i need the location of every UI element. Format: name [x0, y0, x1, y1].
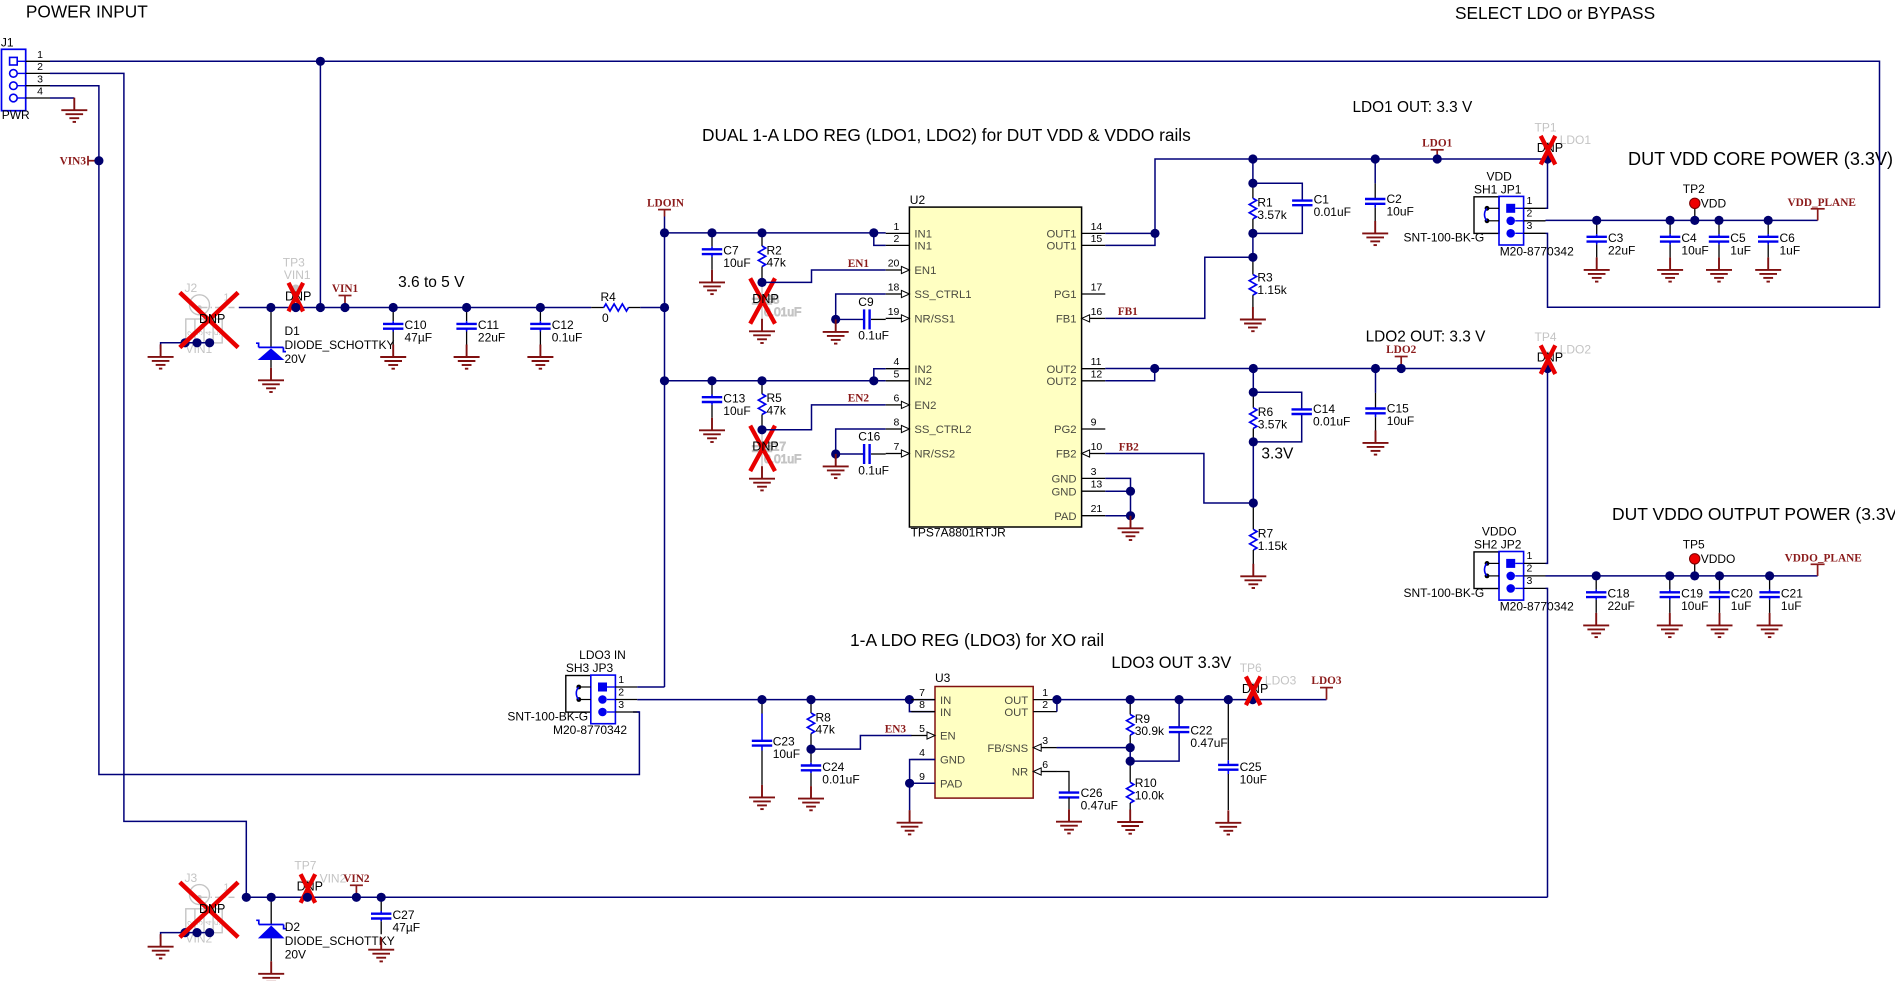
ground under C27	[368, 937, 394, 961]
node VIN3	[60, 156, 99, 168]
svg-text:POWER INPUT: POWER INPUT	[26, 1, 148, 21]
svg-text:3.57k: 3.57k	[1257, 208, 1287, 222]
wire U3 IN pin8 join	[909, 700, 935, 712]
svg-text:VDD: VDD	[1487, 169, 1513, 183]
test point TP6 (DNP)	[1240, 661, 1297, 705]
pin 10 FB2 of U2	[1056, 441, 1105, 461]
wire FB2 from U2 to divider	[1105, 454, 1253, 504]
svg-text:3.57k: 3.57k	[1258, 418, 1288, 432]
svg-text:OUT1: OUT1	[1046, 241, 1076, 253]
svg-text:VIN1: VIN1	[284, 268, 311, 282]
ground	[699, 270, 725, 294]
svg-text:J1: J1	[1, 36, 14, 50]
pin 4 GND of U3	[911, 747, 965, 767]
svg-text:10uF: 10uF	[723, 256, 750, 270]
svg-text:3: 3	[37, 73, 43, 85]
svg-text:3.6 to 5 V: 3.6 to 5 V	[398, 274, 465, 291]
junctions on LDO1 rail	[1248, 154, 1552, 163]
capacitor C27	[371, 897, 420, 934]
svg-text:LDO3 IN: LDO3 IN	[579, 648, 626, 662]
svg-text:PWR: PWR	[2, 108, 30, 122]
connector JP2 with shunt SH2	[1403, 524, 1574, 613]
svg-text:0.1uF: 0.1uF	[858, 329, 889, 343]
wire U2 OUT2 pin12 join	[1105, 369, 1154, 381]
capacitor C26	[1059, 786, 1118, 813]
svg-text:1uF: 1uF	[1781, 599, 1802, 613]
ground at C16	[823, 454, 849, 478]
svg-text:SS_CTRL1: SS_CTRL1	[914, 289, 971, 301]
svg-text:1uF: 1uF	[1730, 244, 1751, 258]
wire EN1 from R2 to U2	[762, 270, 886, 282]
svg-text:1uF: 1uF	[1780, 244, 1801, 258]
wire EN3 from R8 to U3	[811, 736, 912, 750]
svg-text:DNP: DNP	[199, 312, 225, 326]
ground under R10	[1117, 810, 1143, 834]
ground	[148, 934, 174, 958]
svg-text:M20-8770342: M20-8770342	[1500, 245, 1574, 259]
capacitor C10	[383, 308, 432, 345]
svg-text:9: 9	[919, 771, 925, 783]
capacitor C20	[1709, 576, 1753, 613]
svg-text:OUT2: OUT2	[1046, 376, 1076, 388]
svg-text:30.9k: 30.9k	[1135, 724, 1165, 738]
junctions R9 R10 tee	[1126, 743, 1135, 766]
resistor R3	[1249, 257, 1287, 309]
ground under C8	[749, 319, 775, 343]
DNP mark over C17	[750, 426, 775, 471]
svg-text:22uF: 22uF	[478, 331, 505, 345]
capacitor C9	[858, 295, 889, 343]
capacitor C5	[1709, 220, 1751, 257]
junctions J3 pins	[181, 928, 215, 937]
ground	[380, 345, 406, 369]
svg-text:20V: 20V	[285, 352, 306, 366]
svg-text:DNP: DNP	[752, 439, 778, 453]
wire U2 OUT1 to LDO1 rail	[1105, 232, 1155, 234]
node VDDO_PLANE	[1785, 553, 1862, 576]
wire EN2 from R5 to U2	[762, 405, 886, 430]
ground under C17	[749, 466, 775, 490]
svg-text:TP7: TP7	[294, 859, 316, 873]
svg-text:2: 2	[1042, 699, 1048, 711]
svg-text:DIODE_SCHOTTKY: DIODE_SCHOTTKY	[285, 934, 395, 948]
svg-text:1: 1	[1527, 550, 1533, 562]
junction OUT2	[1150, 364, 1159, 373]
svg-text:C9: C9	[858, 295, 874, 309]
svg-text:LDO1 OUT: 3.3 V: LDO1 OUT: 3.3 V	[1353, 99, 1473, 116]
svg-text:4: 4	[894, 356, 900, 368]
svg-text:0.1uF: 0.1uF	[552, 331, 583, 345]
ground at J1 pin4	[61, 98, 87, 122]
resistor R5	[758, 381, 786, 430]
svg-text:IN2: IN2	[914, 376, 932, 388]
ground	[1755, 257, 1781, 281]
wire J1 pin3 to JP3 pin3	[50, 86, 639, 775]
svg-text:D2: D2	[285, 920, 301, 934]
junctions U2 GND	[1126, 487, 1135, 521]
pin 18 SS_CTRL1 of U2	[886, 282, 972, 302]
svg-text:18: 18	[888, 282, 900, 294]
wire JP3 pin3 to J1 pin3 net	[637, 711, 639, 713]
svg-text:IN1: IN1	[914, 229, 932, 241]
wire FB/SNS to divider	[1057, 747, 1131, 749]
capacitor C16	[858, 429, 889, 477]
svg-text:FB2: FB2	[1056, 449, 1077, 461]
wire J1 pin1 VIN1 top rail and bypass loop to JP1 pin3	[50, 61, 1880, 307]
connector JP1 with shunt SH1	[1403, 169, 1574, 258]
svg-text:VIN2: VIN2	[343, 873, 370, 885]
svg-text:IN1: IN1	[914, 241, 932, 253]
node VDD_PLANE	[1788, 197, 1856, 220]
svg-text:10uF: 10uF	[723, 404, 750, 418]
wire J2 pins to ground	[161, 343, 210, 349]
pin 12 OUT2 of U2	[1046, 368, 1105, 388]
svg-text:20V: 20V	[285, 948, 306, 962]
wire JP2 pin2 VDDO rail	[1546, 575, 1818, 577]
resistor R7	[1250, 503, 1288, 566]
junction C9 node	[831, 315, 840, 324]
svg-text:7: 7	[894, 441, 900, 453]
svg-text:SNT-100-BK-G: SNT-100-BK-G	[1403, 231, 1484, 245]
junctions on LDO3 rail	[1052, 695, 1257, 704]
pin 2 IN1 of U2	[886, 233, 932, 253]
node VIN2	[343, 873, 370, 898]
wire U2 OUT2 to LDO2 rail	[1105, 368, 1154, 370]
svg-text:IN2: IN2	[914, 364, 932, 376]
svg-text:0.01uF: 0.01uF	[822, 772, 859, 786]
connector JP3 with shunt SH3	[507, 648, 637, 737]
wire LDOIN vertical	[664, 217, 666, 688]
capacitor C15	[1365, 369, 1414, 431]
pin 6 EN2 of U2	[886, 392, 937, 412]
svg-text:15: 15	[1091, 233, 1103, 245]
test point TP2	[1683, 182, 1727, 221]
node LDO1	[1422, 137, 1452, 159]
connector J1	[1, 36, 50, 123]
svg-text:10: 10	[1091, 441, 1103, 453]
svg-text:7: 7	[919, 687, 925, 699]
junction on J1 pin1 wire	[316, 57, 325, 66]
svg-text:NR/SS1: NR/SS1	[914, 314, 955, 326]
svg-text:10uF: 10uF	[1387, 414, 1414, 428]
svg-text:5: 5	[894, 368, 900, 380]
svg-text:14: 14	[1091, 221, 1103, 233]
connector J2 (barrel jack, DNP)	[186, 295, 238, 343]
capacitor C18	[1586, 576, 1635, 613]
junctions on VDDO rail	[1592, 571, 1775, 580]
svg-text:U3: U3	[935, 671, 951, 685]
node VIN1	[332, 283, 359, 308]
junctions on LDO2 rail	[1249, 364, 1552, 373]
node FB1	[1118, 306, 1138, 318]
junctions on LDOIN rail 2	[660, 376, 879, 434]
ground under C26	[1056, 809, 1082, 833]
wire U2 SS_CTRL1 to C9 node	[836, 294, 886, 319]
svg-text:47k: 47k	[816, 723, 836, 737]
svg-text:M20-8770342: M20-8770342	[1500, 600, 1574, 614]
wire J1 pin2 to bottom VIN2 rail	[50, 73, 246, 897]
svg-text:VDDO: VDDO	[1701, 552, 1736, 566]
svg-text:TPS7A8801RTJR: TPS7A8801RTJR	[911, 526, 1006, 540]
ground	[454, 345, 480, 369]
wire C22 branch	[1178, 700, 1180, 728]
svg-text:TP5: TP5	[1683, 537, 1705, 551]
svg-text:EN2: EN2	[914, 400, 936, 412]
svg-text:U2: U2	[910, 193, 926, 207]
capacitor C3	[1587, 220, 1636, 257]
svg-text:47k: 47k	[767, 404, 787, 418]
pin 7 IN of U3	[911, 687, 951, 707]
svg-text:11: 11	[1091, 356, 1102, 368]
pin 9 PAD of U3	[911, 771, 962, 791]
wire U2 OUT1 pin15 join and rail up	[1105, 159, 1547, 245]
pin 8 IN of U3	[911, 699, 951, 719]
svg-text:GND: GND	[940, 755, 965, 767]
svg-text:DNP: DNP	[199, 902, 225, 916]
wire C16 node to U2 NR/SS2	[836, 453, 863, 455]
ground	[148, 344, 174, 368]
pin 4 IN2 of U2	[886, 356, 932, 376]
ground	[1657, 613, 1683, 637]
svg-text:DUT VDDO OUTPUT POWER (3.3V): DUT VDDO OUTPUT POWER (3.3V)	[1612, 504, 1895, 524]
svg-text:VDDO: VDDO	[1482, 524, 1517, 538]
wire LDOIN rail to U2 IN1	[665, 232, 886, 234]
pin 14 OUT1 of U2	[1046, 221, 1105, 241]
svg-text:3: 3	[618, 699, 624, 711]
junctions J2 pins	[181, 338, 215, 347]
svg-text:OUT1: OUT1	[1046, 229, 1076, 241]
wire JP1 pin2 VDD rail	[1546, 219, 1818, 221]
wire U3 NR to C26	[1057, 772, 1069, 793]
node EN3	[885, 723, 907, 735]
svg-text:22uF: 22uF	[1608, 599, 1635, 613]
svg-text:PG1: PG1	[1054, 289, 1077, 301]
svg-text:3: 3	[1042, 735, 1048, 747]
svg-text:4: 4	[37, 86, 43, 98]
svg-text:DUAL 1-A LDO REG (LDO1, LDO2): DUAL 1-A LDO REG (LDO1, LDO2) for DUT VD…	[702, 125, 1191, 145]
node LDO2	[1386, 344, 1416, 369]
svg-text:16: 16	[1091, 306, 1103, 318]
capacitor C17 (DNP)	[752, 430, 802, 467]
wire LDO2 rail	[1155, 368, 1548, 370]
svg-text:10uF: 10uF	[1681, 599, 1708, 613]
capacitor C11	[456, 308, 505, 345]
capacitor C12	[530, 308, 582, 345]
pin 17 PG1 of U2	[1054, 282, 1105, 302]
svg-text:C16: C16	[858, 429, 880, 443]
svg-text:47k: 47k	[767, 256, 787, 270]
wire U2 IN2 pin4 join	[874, 369, 886, 381]
wire U3 OUT rail LDO3	[1057, 699, 1327, 701]
resistor R8	[807, 700, 835, 750]
ground under D1	[258, 368, 284, 392]
wire bottom VIN2 rail	[246, 896, 1547, 898]
svg-text:LDOIN: LDOIN	[647, 197, 685, 209]
ground	[699, 418, 725, 442]
ground under R3	[1240, 307, 1266, 331]
wire LDOIN rail to U2 IN2	[665, 380, 886, 382]
svg-text:VDD: VDD	[1701, 197, 1727, 211]
svg-text:1: 1	[1527, 195, 1533, 207]
svg-text:FB/SNS: FB/SNS	[987, 743, 1028, 755]
pin 7 NR/SS2 of U2	[886, 441, 956, 461]
DNP mark over J3	[180, 882, 238, 937]
svg-text:12: 12	[1091, 368, 1103, 380]
capacitor C6	[1758, 220, 1800, 257]
svg-text:PAD: PAD	[940, 779, 962, 791]
junctions on VDD rail	[1592, 216, 1773, 225]
svg-text:LDO3: LDO3	[1265, 674, 1297, 688]
pin 21 PAD of U2	[1054, 503, 1105, 523]
junction U3 PAD	[905, 779, 914, 788]
junctions on VIN2 rail	[242, 893, 386, 902]
wire LDO2 rail to divider R6	[1252, 369, 1254, 393]
svg-text:22uF: 22uF	[1608, 244, 1635, 258]
svg-text:GND: GND	[1051, 474, 1076, 486]
svg-text:EN2: EN2	[848, 393, 870, 405]
resistor R9	[1127, 700, 1165, 748]
svg-text:FB2: FB2	[1119, 441, 1139, 453]
junction VIN3	[94, 156, 103, 165]
wire divider mid to FB2 tee	[1252, 442, 1254, 503]
svg-text:EN1: EN1	[848, 258, 870, 270]
wire R9 to R10 tee	[1129, 748, 1131, 762]
svg-text:NR: NR	[1012, 767, 1028, 779]
svg-text:M20-8770342: M20-8770342	[553, 723, 627, 737]
DNP mark over C8	[750, 278, 775, 323]
svg-text:IN: IN	[940, 707, 951, 719]
svg-text:SS_CTRL2: SS_CTRL2	[914, 424, 971, 436]
svg-text:LDO1: LDO1	[1560, 133, 1592, 147]
svg-text:GND: GND	[1051, 486, 1076, 498]
svg-text:PAD: PAD	[1054, 511, 1076, 523]
svg-text:1-A LDO REG (LDO3) for XO rail: 1-A LDO REG (LDO3) for XO rail	[850, 630, 1104, 650]
svg-text:NR/SS2: NR/SS2	[914, 449, 955, 461]
capacitor C19	[1660, 576, 1709, 613]
capacitor C14	[1292, 402, 1351, 429]
pin 13 GND of U2	[1051, 479, 1105, 499]
ground under C23	[749, 785, 775, 809]
wire JP3 pin1 to LDOIN	[637, 686, 664, 688]
node LDOIN	[647, 197, 685, 216]
svg-text:0.01uF: 0.01uF	[1314, 205, 1351, 219]
resistor R6	[1250, 392, 1288, 442]
pin 15 OUT1 of U2	[1046, 233, 1105, 253]
ground at U3 PAD	[897, 810, 923, 834]
node EN2	[848, 393, 870, 405]
svg-text:0: 0	[602, 311, 609, 325]
svg-text:20: 20	[888, 258, 900, 270]
test point TP7 (DNP)	[294, 859, 346, 903]
svg-text:IN: IN	[940, 695, 951, 707]
svg-text:10uF: 10uF	[773, 747, 800, 761]
svg-text:2: 2	[37, 61, 43, 73]
ground	[527, 345, 553, 369]
svg-text:13: 13	[1091, 479, 1103, 491]
svg-text:TP2: TP2	[1683, 182, 1705, 196]
capacitor C24	[801, 749, 860, 786]
resistor R4	[591, 290, 640, 325]
svg-text:FB1: FB1	[1056, 314, 1077, 326]
svg-text:OUT2: OUT2	[1046, 364, 1076, 376]
svg-text:VIN1: VIN1	[332, 283, 359, 295]
pin 16 FB1 of U2	[1056, 306, 1105, 326]
wire U3 IN pin7	[909, 699, 935, 701]
wire JP2 pin3 to bottom rail	[1546, 588, 1548, 897]
svg-text:10.0k: 10.0k	[1135, 788, 1165, 802]
svg-text:19: 19	[888, 306, 900, 318]
pin 2 OUT of U3	[1004, 699, 1057, 719]
junctions on divider R6 R7	[1249, 388, 1258, 508]
pin 20 EN1 of U2	[886, 258, 937, 278]
ground under R7	[1240, 564, 1266, 588]
ground	[1706, 257, 1732, 281]
junctions on LDO3 input rail	[757, 695, 914, 754]
svg-text:6: 6	[1042, 759, 1048, 771]
node EN1	[848, 258, 870, 270]
svg-text:3.3V: 3.3V	[1261, 446, 1294, 463]
svg-text:3: 3	[1527, 575, 1533, 587]
svg-text:LDO2: LDO2	[1386, 344, 1416, 356]
test point TP3 (DNP)	[283, 256, 312, 312]
ground at C9	[823, 319, 849, 343]
DNP mark over J2	[180, 293, 238, 348]
capacitor C7	[702, 233, 751, 270]
svg-text:LDO1: LDO1	[1422, 137, 1452, 149]
pin 5 EN of U3	[911, 723, 955, 743]
svg-text:LDO3: LDO3	[1311, 675, 1341, 687]
wire LDO1 rail to divider	[1252, 159, 1254, 183]
svg-text:10uF: 10uF	[1681, 244, 1708, 258]
svg-text:1: 1	[894, 221, 900, 233]
svg-text:DUT VDD CORE POWER (3.3V): DUT VDD CORE POWER (3.3V)	[1628, 149, 1893, 169]
svg-text:D1: D1	[285, 324, 301, 338]
test point TP5	[1683, 537, 1736, 576]
resistor R10	[1127, 761, 1165, 812]
svg-text:10uF: 10uF	[1240, 772, 1267, 786]
svg-text:1.15k: 1.15k	[1257, 283, 1287, 297]
wire FB1 from U2 to divider	[1105, 257, 1253, 318]
wire divider mid to FB tee	[1252, 233, 1254, 257]
resistor R2	[758, 233, 786, 283]
svg-text:2: 2	[1527, 563, 1533, 575]
pin 3 GND of U2	[1051, 466, 1105, 486]
svg-text:LDO2: LDO2	[1560, 343, 1592, 357]
capacitor C25	[1218, 700, 1267, 810]
ground	[1757, 613, 1783, 637]
resistor R1	[1249, 183, 1287, 233]
ground	[1584, 257, 1610, 281]
pin 19 NR/SS1 of U2	[886, 306, 956, 326]
svg-text:TP6: TP6	[1240, 661, 1262, 675]
svg-text:0.01uF: 0.01uF	[1313, 415, 1350, 429]
pin 8 SS_CTRL2 of U2	[886, 417, 972, 437]
pin 1 OUT of U3	[1004, 687, 1057, 707]
capacitor C4	[1660, 220, 1709, 257]
wire JP3 pin2 LDO3 input rail	[637, 699, 911, 701]
svg-text:2: 2	[894, 233, 900, 245]
wire C9 node to U2 NR/SS1	[836, 318, 863, 320]
svg-text:1: 1	[37, 49, 43, 61]
svg-text:SH3 JP3: SH3 JP3	[566, 661, 614, 675]
svg-text:OUT: OUT	[1004, 707, 1028, 719]
svg-text:8: 8	[894, 417, 900, 429]
svg-text:1: 1	[1042, 687, 1048, 699]
wire J1 pin4 to ground	[50, 97, 74, 99]
svg-text:TP1: TP1	[1534, 120, 1556, 134]
svg-text:1.15k: 1.15k	[1258, 539, 1288, 553]
svg-text:VIN3: VIN3	[60, 156, 87, 168]
